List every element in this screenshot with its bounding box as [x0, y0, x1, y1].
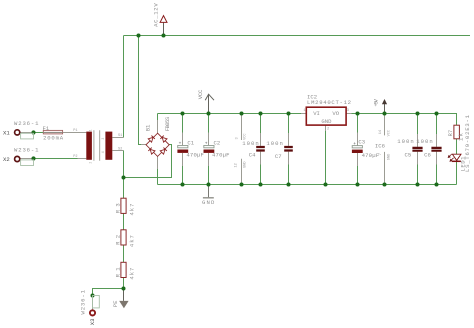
ground symbol GND — [203, 197, 214, 199]
wire S2 run to bridge AC2 — [124, 145, 172, 178]
wire C5 bottom stem — [417, 152, 419, 185]
supply symbol +5V arrow — [382, 99, 387, 104]
wire GND bus — [158, 184, 457, 186]
label C2 value 470uF — [212, 152, 230, 159]
svg-text:C4: C4 — [249, 152, 256, 159]
svg-text:W236-1: W236-1 — [14, 147, 39, 154]
label X1 value W236-1 — [14, 120, 39, 127]
voltage regulator IC2 box — [306, 107, 346, 125]
LED1 diode — [452, 154, 461, 161]
svg-text:3: 3 — [235, 137, 239, 139]
label C1 value 470uF — [186, 152, 204, 159]
wire +12V bus from VO to R7 — [352, 114, 457, 126]
label F1 value 200mA — [43, 134, 64, 141]
label B1 value FB05S (rotated) — [164, 116, 171, 131]
svg-text:2: 2 — [327, 128, 329, 132]
label R7 value 1k (rotated) — [458, 132, 465, 141]
svg-text:W236-1: W236-1 — [80, 289, 87, 314]
label IC2 pin number 1 — [303, 109, 305, 113]
svg-text:GND: GND — [243, 161, 247, 167]
label IC2 pin VO — [332, 110, 339, 117]
LED1 emission arrows — [448, 154, 453, 161]
resistor R1 — [121, 262, 126, 277]
label IC5 power gate pin VCC (rotated) — [243, 133, 247, 139]
label IC6 pin number 14 — [379, 130, 383, 134]
transformer TR core — [94, 130, 100, 160]
svg-text:470µF: 470µF — [186, 152, 204, 159]
label C6 value 100n — [416, 138, 433, 145]
wire R7 to LED1 — [456, 139, 458, 154]
svg-text:VCC: VCC — [197, 89, 204, 99]
svg-text:C1: C1 — [187, 140, 194, 147]
svg-text:GND: GND — [321, 118, 332, 125]
wire bridge plus riser — [157, 114, 159, 134]
label GND symbol text — [202, 199, 215, 206]
svg-text:200mA: 200mA — [43, 134, 64, 141]
bridge diode top-left — [148, 136, 155, 143]
wire AC_12V supply stem — [163, 22, 165, 35]
svg-text:B1: B1 — [144, 124, 151, 131]
label X2 value W236-1 — [14, 147, 39, 154]
wire AC_12V bus (net from S1 to right edge) — [124, 35, 470, 37]
label C3 value 470uF — [362, 152, 380, 159]
transformer TR primary winding — [86, 132, 92, 160]
svg-text:LM2940CT-12: LM2940CT-12 — [307, 99, 351, 106]
label C5 value 100n — [397, 138, 414, 145]
label C5 name — [405, 152, 412, 159]
wire C7 top stem — [288, 114, 290, 146]
svg-text:C6: C6 — [424, 152, 431, 159]
label pin P2 — [73, 155, 77, 159]
svg-text:X1: X1 — [3, 130, 10, 137]
label R3 name (rotated) — [114, 203, 121, 213]
label R1 value 4k7 (rotated) — [128, 268, 135, 280]
capacitor C7 — [284, 147, 293, 151]
label IC5 power gate pin number 12 — [235, 163, 239, 167]
bridge diode top-right — [160, 136, 167, 143]
wire IC2 VO pin stub — [346, 113, 351, 115]
wire X3 pin stub — [92, 296, 94, 311]
label IC2 value LM2940CT-12 — [307, 99, 351, 106]
svg-text:4k7: 4k7 — [128, 268, 135, 280]
svg-text:C2: C2 — [214, 140, 221, 147]
label IC6 pin GND (rotated) — [387, 154, 391, 160]
label C7 value 100n — [266, 140, 283, 147]
label C4 value 100n — [242, 140, 259, 147]
svg-text:C5: C5 — [405, 152, 412, 159]
wire X2 pin stub — [20, 158, 33, 160]
wire bridge minus riser — [157, 156, 159, 184]
label B1 name (rotated) — [144, 124, 151, 131]
svg-text:C7: C7 — [275, 153, 282, 160]
capacitor C2 (electrolytic) — [204, 141, 215, 153]
connector X1 — [15, 130, 34, 139]
label IC6 name — [375, 142, 385, 149]
wire resistor chain top — [123, 178, 125, 199]
label R1 name (rotated) — [114, 267, 121, 278]
svg-text:P2: P2 — [73, 155, 77, 159]
label X3 name (rotated) — [89, 318, 96, 325]
label C3 name — [358, 139, 365, 146]
wire C2 top stem — [208, 114, 210, 146]
svg-text:C3: C3 — [358, 139, 365, 146]
svg-text:VCC: VCC — [243, 133, 247, 139]
svg-text:X2: X2 — [3, 156, 10, 163]
label IC2 pin VI — [313, 110, 320, 117]
label C7 name — [275, 153, 282, 160]
wire bridge AC1 drop from bus — [139, 36, 147, 145]
svg-text:FB05S: FB05S — [164, 116, 171, 131]
wire IC6 power gate bottom pin GND — [384, 152, 386, 185]
label F1 name — [43, 125, 50, 132]
wire LED1 to GND bus — [456, 161, 458, 184]
wire VCC bus to IC2 VI — [158, 113, 302, 115]
wire R1 bottom to PE node — [123, 278, 125, 289]
svg-text:PE: PE — [112, 300, 119, 307]
label R2 value 4k7 (rotated) — [128, 235, 135, 247]
label X1 name — [3, 130, 10, 137]
label net +5 (rotated) — [372, 98, 379, 106]
label C1 name — [187, 140, 194, 147]
capacitor C6 — [431, 148, 441, 151]
wire R3-R2 link — [123, 213, 125, 229]
svg-text:1: 1 — [303, 109, 305, 113]
label C2 name — [214, 140, 221, 147]
wire C2 bottom stem — [208, 153, 210, 185]
wire IC2 VI pin stub — [301, 113, 306, 115]
label pin P1 — [73, 129, 77, 133]
label C6 name — [424, 152, 431, 159]
wire IC5 power gate top pin — [241, 114, 243, 141]
label transformer pin numbers — [88, 129, 105, 163]
svg-text:3: 3 — [347, 109, 349, 113]
svg-text:100n: 100n — [397, 138, 414, 145]
wire C5 top stem — [417, 114, 419, 147]
wire C1 bottom stem — [182, 153, 184, 185]
label R7 name (rotated) — [447, 130, 454, 137]
capacitor C1 (electrolytic) — [177, 141, 188, 153]
fuse F1 — [43, 130, 62, 134]
wire PE node to X3 — [93, 289, 124, 296]
svg-text:4k7: 4k7 — [128, 204, 135, 216]
svg-text:12: 12 — [235, 163, 239, 167]
ground symbol PE — [119, 301, 128, 308]
wire S1 riser — [123, 36, 125, 138]
svg-text:S1: S1 — [118, 134, 122, 138]
wire F1 to transformer P1 — [63, 132, 87, 134]
svg-text:F1: F1 — [43, 125, 50, 132]
wire C1 top stem — [182, 114, 184, 146]
wire IC2 GND pin stem — [325, 125, 327, 184]
svg-text:VCC: VCC — [387, 130, 391, 136]
wire C4 top stem — [260, 114, 262, 146]
svg-text:AC_12V: AC_12V — [153, 3, 160, 27]
svg-text:1: 1 — [88, 129, 92, 131]
wire C6 bottom stem — [436, 152, 438, 185]
svg-text:X3: X3 — [89, 318, 96, 325]
wire GND symbol stem — [208, 185, 210, 198]
wire VCC supply stem — [208, 94, 210, 113]
label IC2 pin number 3 — [347, 109, 349, 113]
connector X2 — [15, 156, 34, 165]
svg-text:GND: GND — [202, 199, 215, 206]
label net VCC (rotated) — [197, 89, 204, 99]
label IC2 name — [307, 94, 317, 101]
wire C7 bottom stem — [288, 152, 290, 185]
wire C6 top stem — [436, 114, 438, 147]
svg-text:2: 2 — [88, 162, 92, 164]
svg-text:IC6: IC6 — [375, 142, 385, 149]
label R2 name (rotated) — [114, 235, 121, 245]
svg-text:100n: 100n — [266, 140, 283, 147]
capacitor C4 — [256, 147, 265, 151]
svg-text:470µF: 470µF — [212, 152, 230, 159]
label LED1 value LS_T679-02E3-1 (rotated) — [464, 114, 471, 172]
resistor R3 — [121, 198, 126, 213]
svg-text:W236-1: W236-1 — [14, 120, 39, 127]
label IC6 pin number 7 — [379, 153, 383, 155]
svg-text:14: 14 — [379, 130, 383, 134]
wire X2 to transformer P2 — [34, 158, 87, 160]
label IC5 power gate pin GND (rotated) — [243, 161, 247, 167]
svg-text:VI: VI — [313, 110, 320, 117]
wire S2 riser down — [123, 151, 125, 178]
label C4 name — [249, 152, 256, 159]
svg-text:7: 7 — [379, 153, 383, 155]
label IC2 pin GND — [321, 118, 332, 125]
wire X1 to fuse F1 — [34, 132, 44, 134]
bridge diode bottom-left — [148, 148, 155, 155]
wire IC6 power gate top pin VCC — [384, 114, 386, 136]
svg-text:VO: VO — [332, 110, 339, 117]
svg-text:100n: 100n — [242, 140, 259, 147]
wire IC5 power gate bottom pin — [241, 159, 243, 185]
label IC6 pin VCC (rotated) — [387, 130, 391, 136]
label PE text (rotated) — [112, 300, 119, 307]
svg-text:+5V: +5V — [372, 98, 379, 106]
svg-text:3: 3 — [101, 138, 105, 140]
capacitor C3 (electrolytic) — [352, 142, 363, 153]
svg-text:S2: S2 — [118, 148, 122, 152]
resistor R7 — [454, 125, 460, 139]
bridge diode bottom-right — [160, 148, 167, 155]
wire +5V supply stem — [384, 104, 386, 114]
label pin S2 — [118, 148, 122, 152]
svg-text:4: 4 — [101, 151, 105, 153]
wire C3 bottom stem — [357, 153, 359, 185]
svg-text:LS_T679-02E3-1: LS_T679-02E3-1 — [464, 114, 471, 172]
label pin S1 — [118, 134, 122, 138]
svg-text:+: + — [179, 141, 182, 146]
svg-text:R7: R7 — [447, 130, 454, 137]
transformer TR secondary winding — [105, 132, 112, 160]
label IC2 pin number 2 — [327, 128, 329, 132]
wire X1 pin stub — [20, 132, 33, 134]
label X3 value W236-1 (rotated) — [80, 289, 87, 314]
capacitor C5 — [412, 148, 422, 151]
wire R2-R1 link — [123, 245, 125, 262]
label LED1 name (rotated) — [460, 156, 467, 172]
svg-text:470µF: 470µF — [362, 152, 380, 159]
svg-text:+: + — [205, 141, 208, 146]
svg-text:+: + — [353, 142, 356, 147]
resistor R2 — [121, 230, 126, 245]
supply symbol VCC arrow — [205, 94, 214, 100]
wire S1 pin stub — [112, 137, 123, 139]
wire S2 pin stub — [112, 150, 123, 152]
svg-text:4k7: 4k7 — [128, 235, 135, 247]
wire C4 bottom stem — [260, 152, 262, 185]
label R3 value 4k7 (rotated) — [128, 204, 135, 216]
svg-text:P1: P1 — [73, 129, 77, 133]
wire C3 top stem — [357, 114, 359, 146]
svg-text:GND: GND — [387, 154, 391, 160]
label X2 name — [3, 156, 10, 163]
connector X3 — [90, 296, 99, 316]
label IC5 power gate pin number 3 — [235, 137, 239, 139]
label net AC_12V (rotated) — [153, 3, 160, 27]
wire PE stem — [123, 289, 125, 301]
supply symbol AC_12V — [160, 16, 167, 23]
bridge rectifier B1 body — [146, 133, 169, 156]
svg-text:100n: 100n — [416, 138, 433, 145]
